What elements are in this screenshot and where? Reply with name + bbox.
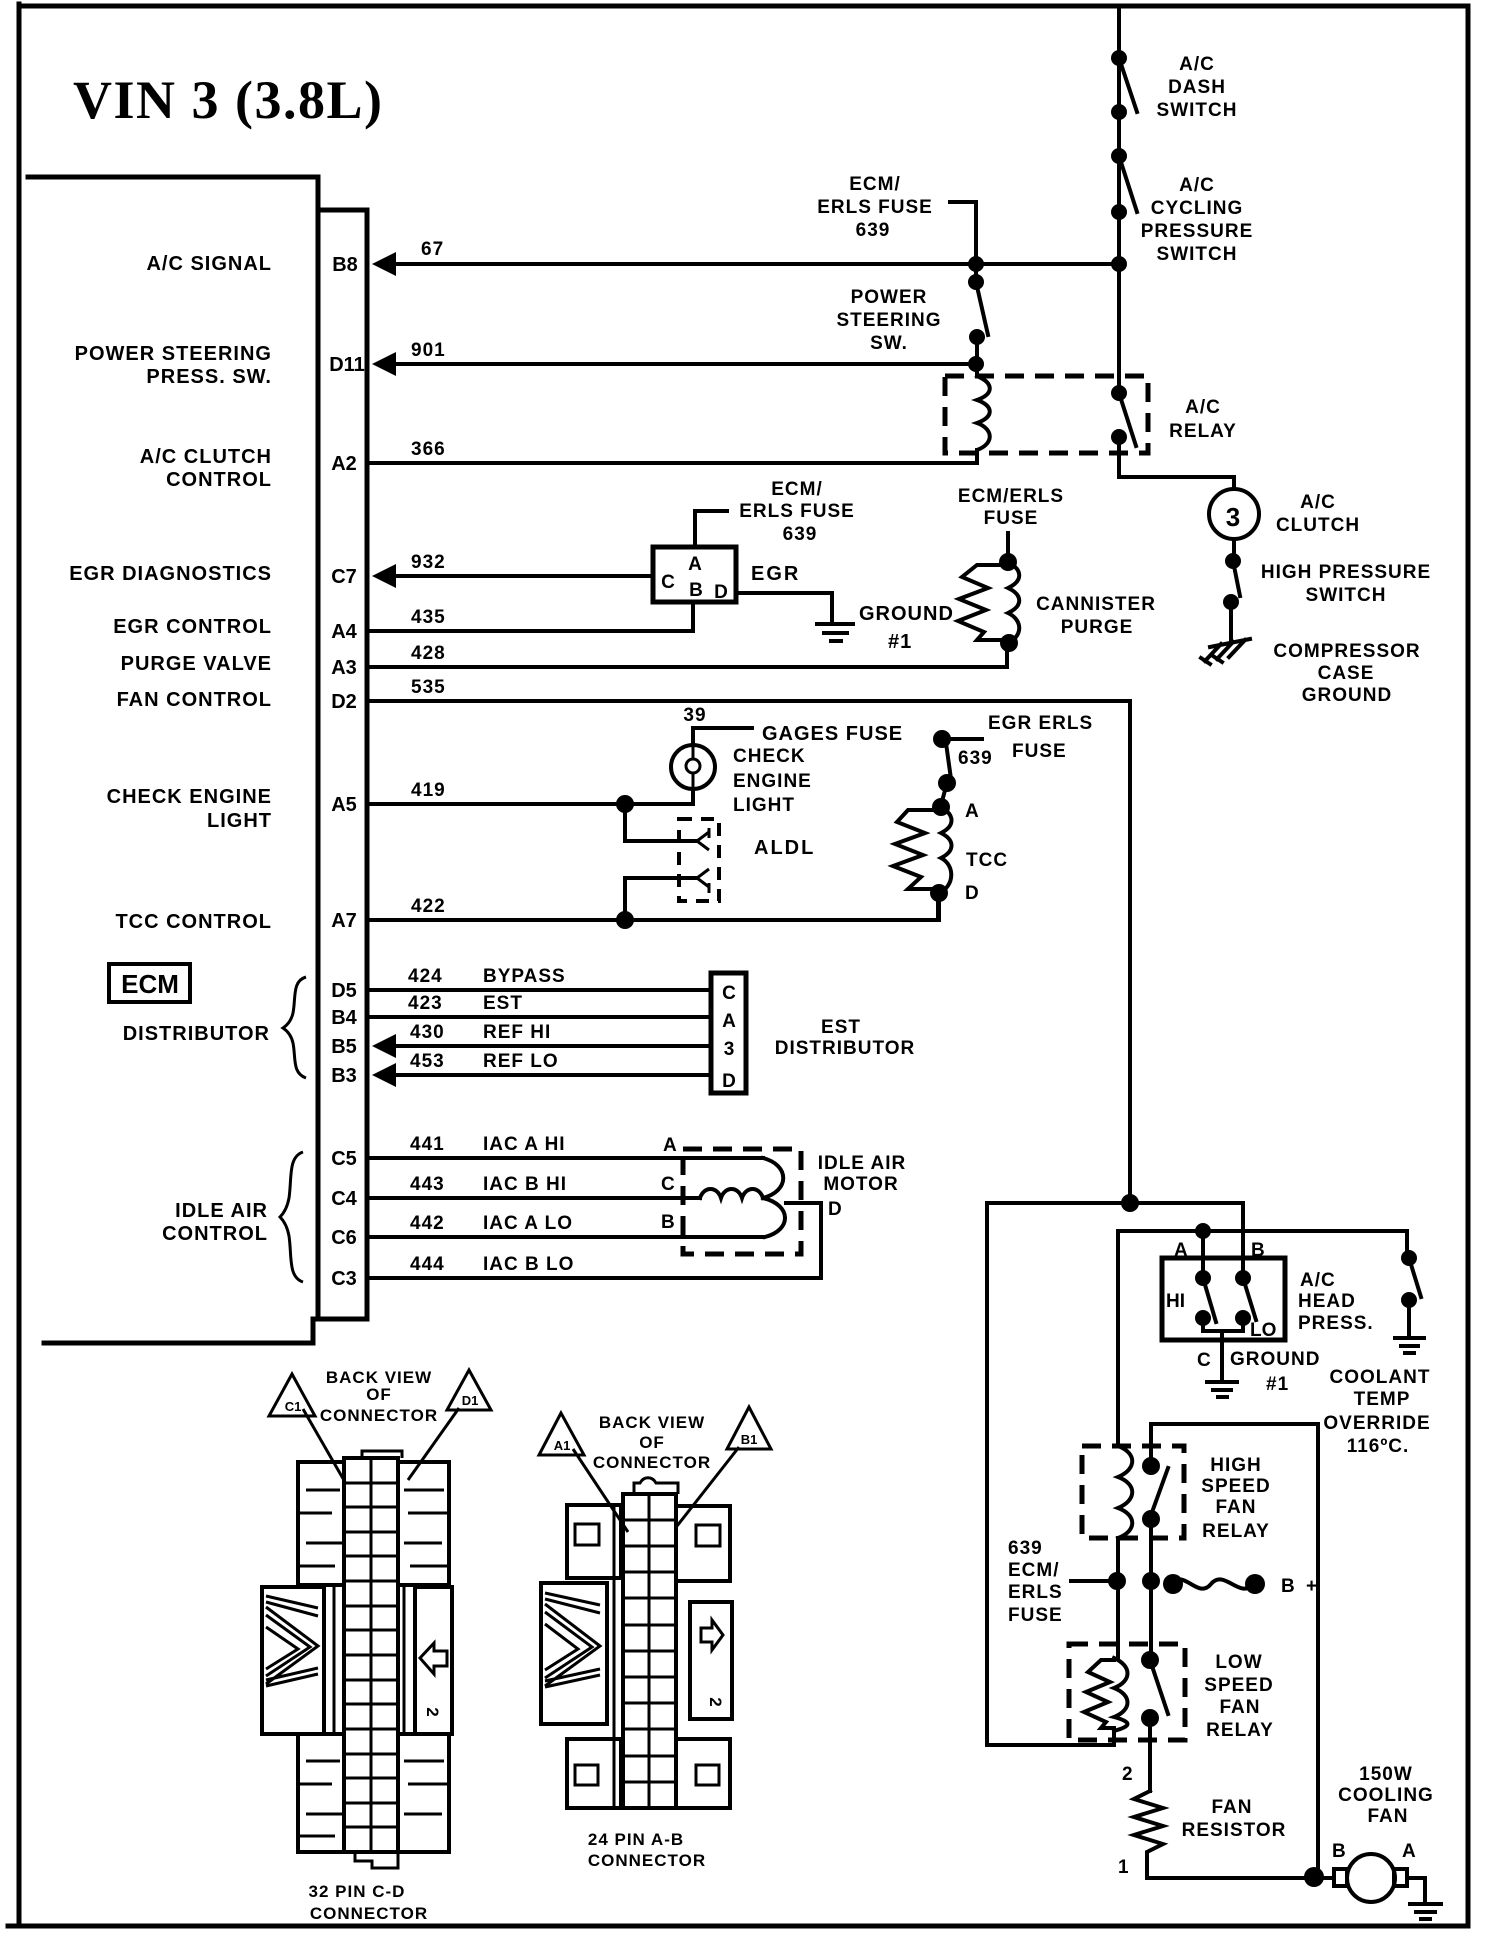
labels B A (fan) [1332,1841,1416,1862]
svg-text:CYCLING: CYCLING [1151,198,1244,219]
svg-text:IAC A HI: IAC A HI [483,1134,566,1155]
wire 423 EST [369,1015,711,1019]
idle air motor windings [700,1158,785,1237]
node: wire 901 junction [968,356,984,372]
EST distributor connector box [711,973,746,1093]
svg-text:A/C: A/C [1179,175,1215,196]
svg-text:CHECK ENGINE: CHECK ENGINE [107,786,272,808]
svg-text:LOW: LOW [1215,1652,1262,1673]
head press LO switch [1235,1270,1256,1326]
label EGR ERLS FUSE 639 [958,713,1093,769]
svg-text:GAGES FUSE: GAGES FUSE [762,723,903,745]
svg-text:2: 2 [423,1707,442,1716]
svg-text:32 PIN C-D: 32 PIN C-D [309,1882,406,1901]
label BACK VIEW OF CONNECTOR (A-B) [593,1413,711,1472]
wire 441 IAC A HI [369,1156,763,1160]
wire 424 bypass [369,988,711,992]
power steering switch [968,274,988,345]
svg-text:TCC CONTROL: TCC CONTROL [115,911,272,933]
svg-text:CONTROL: CONTROL [162,1223,268,1245]
svg-text:EST: EST [821,1017,861,1038]
svg-text:A/C SIGNAL: A/C SIGNAL [146,253,272,275]
wire EGR pin D to ground [738,593,832,622]
svg-text:FUSE: FUSE [1012,741,1067,762]
svg-text:D: D [722,1071,736,1092]
EGR ERLS fuse element [933,730,982,805]
svg-text:EGR: EGR [751,563,800,585]
svg-text:DISTRIBUTOR: DISTRIBUTOR [123,1023,270,1045]
svg-text:C6: C6 [331,1227,357,1249]
high speed fan relay switch [1142,1457,1168,1528]
label COMPRESSOR CASE GROUND [1273,641,1420,706]
label 639 ECM/ERLS FUSE [1008,1538,1063,1626]
svg-text:A/C: A/C [1185,397,1221,418]
svg-text:RELAY: RELAY [1169,421,1237,442]
ALDL connector (dashed) [679,819,719,901]
wire: relay switch top feed [1151,1424,1318,1877]
idle air motor dashed box [683,1149,801,1254]
high speed fan relay box (dashed) [1082,1446,1184,1538]
wire 67 A/C signal [394,262,1119,266]
svg-text:D: D [714,582,728,603]
svg-text:A4: A4 [331,621,357,643]
wire: junction to ALDL pin A [625,804,697,841]
svg-text:FUSE: FUSE [1008,1605,1063,1626]
svg-text:IDLE AIR: IDLE AIR [175,1200,268,1222]
node: fan control junction [1121,1194,1139,1212]
svg-text:A7: A7 [331,910,357,932]
svg-text:POWER STEERING: POWER STEERING [75,343,272,365]
A/C dash switch [1111,50,1137,120]
svg-text:RELAY: RELAY [1206,1720,1274,1741]
svg-text:A/C CLUTCH: A/C CLUTCH [140,446,272,468]
wire 422 TCC control [369,894,938,920]
low speed fan relay box (dashed) [1069,1644,1185,1740]
wire 39 gages fuse stub [693,728,752,745]
svg-text:FAN: FAN [1216,1497,1257,1518]
svg-text:A1: A1 [554,1438,571,1453]
svg-text:B3: B3 [331,1065,357,1087]
svg-text:OF: OF [366,1385,392,1404]
svg-text:A: A [1402,1841,1416,1862]
node: head press A tap [1195,1223,1211,1239]
wire: tap to head press A [1201,1231,1205,1278]
wire 901 power steering [394,362,976,366]
node: A5 wire junction [616,795,634,813]
label A/C DASH SWITCH [1157,54,1238,121]
A/C head press switch box [1162,1258,1285,1340]
ground #1 symbol (head press) [1207,1382,1237,1397]
brace distributor [283,977,306,1078]
low speed fan relay switch [1141,1651,1168,1727]
svg-text:2: 2 [1122,1764,1133,1785]
svg-text:SWITCH: SWITCH [1306,585,1387,606]
svg-text:C5: C5 [331,1148,357,1170]
wire 430 REF HI [394,1044,711,1048]
svg-text:PRESS.: PRESS. [1298,1313,1374,1334]
svg-text:IAC A LO: IAC A LO [483,1213,573,1234]
svg-text:67: 67 [421,239,444,260]
label POWER STEERING PRESS. SW. [75,343,272,388]
svg-text:B +: B + [1281,1576,1320,1597]
svg-text:COOLING: COOLING [1338,1785,1434,1806]
svg-text:B1: B1 [741,1432,758,1447]
callout triangle B1 [677,1407,771,1526]
svg-text:422: 422 [411,896,446,917]
svg-text:IAC B HI: IAC B HI [483,1174,567,1195]
svg-text:CONNECTOR: CONNECTOR [320,1406,438,1425]
label IAC pins A C B [661,1135,677,1233]
svg-text:ERLS FUSE: ERLS FUSE [739,501,855,522]
svg-text:C: C [661,572,675,593]
label GROUND #1 (EGR) [859,603,954,653]
svg-text:#1: #1 [888,631,912,653]
wire TCC D to 422 [937,893,941,920]
svg-text:FAN: FAN [1212,1797,1253,1818]
wire label 442 IAC A LO [410,1213,573,1234]
svg-text:2: 2 [706,1697,725,1706]
ECM label box [109,964,190,1002]
svg-text:CONTROL: CONTROL [166,469,272,491]
compressor case ground symbol [1201,602,1250,664]
label HIGH PRESSURE SWITCH [1261,562,1431,606]
svg-text:FAN: FAN [1220,1697,1261,1718]
svg-text:639: 639 [783,524,818,545]
svg-text:#1: #1 [1266,1374,1289,1395]
arrow into pin D11 [372,352,396,376]
svg-text:424: 424 [408,966,443,987]
wire label 453 REF LO [410,1051,559,1072]
label COOLANT TEMP OVERRIDE 116C [1323,1367,1430,1457]
svg-text:SWITCH: SWITCH [1157,244,1238,265]
svg-text:SPEED: SPEED [1204,1675,1273,1696]
svg-text:ECM: ECM [121,969,179,999]
svg-text:GROUND: GROUND [859,603,954,625]
svg-text:GROUND: GROUND [1302,685,1392,706]
svg-text:453: 453 [410,1051,445,1072]
svg-text:D: D [965,883,979,904]
EGR valve connector box [653,547,736,603]
label 150W COOLING FAN [1338,1764,1434,1827]
svg-text:901: 901 [411,340,446,361]
label ECM/ERLS FUSE 639 (top) [817,174,933,241]
svg-text:B8: B8 [332,254,358,276]
A/C relay coil [977,376,990,463]
node: fan feed junction [1304,1867,1324,1887]
svg-text:ERLS FUSE: ERLS FUSE [817,197,933,218]
svg-text:PRESS. SW.: PRESS. SW. [146,366,272,388]
svg-text:24 PIN A-B: 24 PIN A-B [588,1830,684,1849]
label A/C CLUTCH [1276,492,1360,536]
svg-text:435: 435 [411,607,446,628]
svg-text:A/C: A/C [1179,54,1215,75]
label TCC pins A D [965,801,1008,904]
svg-text:LIGHT: LIGHT [733,795,795,816]
svg-text:444: 444 [410,1254,445,1275]
svg-text:SWITCH: SWITCH [1157,100,1238,121]
svg-text:442: 442 [410,1213,445,1234]
ALDL pin contacts [697,828,709,893]
svg-text:A: A [965,801,979,822]
arrow into pin B8 [372,252,396,276]
wire 366 A/C clutch control [369,450,977,463]
svg-text:CASE: CASE [1318,663,1375,684]
PIN-LABELS [329,254,365,1290]
svg-text:A: A [722,1011,736,1032]
svg-text:ECM/: ECM/ [771,479,823,500]
label 24 PIN A-B CONNECTOR [588,1830,706,1870]
high speed fan relay coil [1118,1446,1132,1538]
svg-text:C7: C7 [331,566,357,588]
svg-text:428: 428 [411,643,446,664]
svg-text:B: B [1332,1841,1346,1862]
label FAN RESISTOR [1182,1797,1287,1841]
svg-text:CHECK: CHECK [733,746,806,767]
svg-text:A: A [688,554,702,575]
svg-text:IAC B LO: IAC B LO [483,1254,574,1275]
svg-text:430: 430 [410,1022,445,1043]
svg-text:ECM/: ECM/ [849,174,901,195]
label A/C RELAY [1169,397,1237,442]
wire 535 fan control [369,701,1130,1203]
svg-text:C4: C4 [331,1188,357,1210]
svg-text:150W: 150W [1359,1764,1413,1785]
wire label 423 EST [408,993,523,1014]
svg-text:ECM/ERLS: ECM/ERLS [958,486,1064,507]
svg-text:OF: OF [639,1433,665,1452]
cooling fan motor [1334,1854,1407,1902]
svg-text:B5: B5 [331,1036,357,1058]
32 pin C-D connector body [262,1451,452,1868]
callout triangle C1 [269,1374,345,1482]
head press HI switch [1195,1270,1216,1326]
high pressure switch [1223,539,1241,610]
svg-text:D1: D1 [462,1393,479,1408]
svg-text:A5: A5 [331,794,357,816]
arrow into pin C7 [372,564,396,588]
wire: main feed vertical [1117,6,1121,393]
callout triangle A1 [539,1413,628,1532]
svg-text:932: 932 [411,552,446,573]
svg-text:D5: D5 [331,980,357,1002]
svg-text:COMPRESSOR: COMPRESSOR [1273,641,1420,662]
wire: junction to head press B [1130,1203,1243,1278]
check engine light bulb [671,745,715,789]
wire: switch to relay coil [975,337,979,376]
wire label 441 IAC A HI [410,1134,566,1155]
svg-text:C: C [1197,1350,1211,1371]
svg-text:A: A [663,1135,677,1156]
svg-text:TCC: TCC [966,850,1008,871]
svg-text:SPEED: SPEED [1201,1476,1270,1497]
label ECM/ERLS FUSE 639 (EGR) [739,479,855,545]
svg-text:MOTOR: MOTOR [823,1174,898,1195]
svg-text:POWER: POWER [851,287,928,308]
svg-text:RESISTOR: RESISTOR [1182,1820,1287,1841]
low speed fan relay coil [1084,1658,1128,1731]
TCC solenoid [893,798,952,902]
coolant temp override switch [1401,1250,1421,1336]
cannister purge solenoid [958,533,1019,652]
wire label 430 REF HI [410,1022,551,1043]
wire 419 check engine light [369,790,693,804]
node: 639 fuse junction [1108,1572,1126,1590]
arrow into pin B5 [372,1034,396,1058]
wire: head press common to ground [1203,1318,1243,1380]
svg-text:COOLANT: COOLANT [1330,1367,1431,1388]
svg-text:C1: C1 [285,1399,302,1414]
A/C cycling pressure switch [1111,148,1137,220]
svg-text:HIGH: HIGH [1210,1455,1262,1476]
wire: ALDL pin D to A7 wire [625,878,697,920]
svg-text:ENGINE: ENGINE [733,771,812,792]
wire: switch to fan resistor [1148,1718,1152,1791]
labels A B HI LO [1166,1240,1276,1341]
wire: fan motor to ground [1407,1878,1425,1902]
svg-text:423: 423 [408,993,443,1014]
node: B+ junction [1142,1572,1160,1590]
label 32 PIN C-D CONNECTOR [309,1882,429,1923]
wire: junction to low speed relay coil [987,1203,1130,1745]
svg-text:CLUTCH: CLUTCH [1276,515,1360,536]
svg-text:FAN CONTROL: FAN CONTROL [117,689,272,711]
svg-text:B: B [661,1212,675,1233]
svg-text:639: 639 [958,748,993,769]
label IDLE AIR MOTOR D [818,1153,907,1220]
ECM pin connector column [318,210,367,1319]
wire: head press A row [1118,1231,1407,1446]
wire 442 IAC A LO [369,1235,763,1239]
ground #1 symbol (EGR) [817,624,853,641]
wire: 639 fuse stub [1071,1579,1117,1583]
svg-text:C: C [722,983,736,1004]
wire 932 EGR diagnostics [394,574,653,578]
node: fuse tap on wire 67 [968,256,984,272]
wire 428 purge valve [369,643,1007,667]
svg-text:419: 419 [411,780,446,801]
svg-text:3: 3 [724,1039,735,1060]
svg-text:D2: D2 [331,691,357,713]
wire: relay output to clutch [1119,437,1234,489]
svg-text:EGR ERLS: EGR ERLS [988,713,1093,734]
svg-text:CONNECTOR: CONNECTOR [310,1904,428,1923]
svg-text:PURGE: PURGE [1061,617,1134,638]
label A/C CYCLING PRESSURE SWITCH [1141,175,1254,265]
wire 453 REF LO [394,1073,711,1077]
svg-text:639: 639 [856,220,891,241]
svg-text:443: 443 [410,1174,445,1195]
svg-text:RELAY: RELAY [1202,1521,1270,1542]
node: A7 wire junction [616,911,634,929]
svg-text:3: 3 [1226,502,1240,532]
svg-text:441: 441 [410,1134,445,1155]
label CHECK ENGINE LIGHT [733,746,812,816]
ground symbol (fan) [1410,1904,1441,1919]
wire 444 IAC B LO [369,1203,821,1278]
svg-text:A/C: A/C [1300,492,1336,513]
svg-text:CONNECTOR: CONNECTOR [593,1453,711,1472]
label HIGH SPEED FAN RELAY [1201,1455,1270,1542]
svg-text:639: 639 [1008,1538,1043,1559]
B+ fusible link [1163,1574,1265,1594]
svg-text:ALDL: ALDL [754,837,815,859]
wire EGR to ECM/ERLS fuse 639 [695,511,727,545]
svg-text:IDLE AIR: IDLE AIR [818,1153,907,1174]
label A/C CLUTCH CONTROL [140,446,272,491]
ground symbol (override) [1395,1338,1424,1353]
svg-text:A3: A3 [331,657,357,679]
svg-text:EGR DIAGNOSTICS: EGR DIAGNOSTICS [69,563,272,585]
svg-text:D11: D11 [329,354,365,376]
svg-text:FAN: FAN [1368,1806,1409,1827]
svg-text:A: A [1174,1240,1188,1261]
svg-text:BACK VIEW: BACK VIEW [599,1413,705,1432]
brace idle air [280,1152,303,1282]
svg-text:REF HI: REF HI [483,1022,551,1043]
svg-text:535: 535 [411,677,446,698]
svg-text:C3: C3 [331,1268,357,1290]
svg-text:C: C [661,1174,675,1195]
ECM outline box [28,177,367,1343]
svg-text:B: B [689,580,703,601]
fan resistor [1134,1791,1163,1878]
label BACK VIEW OF CONNECTOR (C-D) [320,1368,438,1425]
wire label 424 BYPASS [408,966,566,987]
wire label 444 IAC B LO [410,1254,574,1275]
wire from ECM/ERLS fuse 639 to power steering sw [950,202,976,282]
svg-text:DISTRIBUTOR: DISTRIBUTOR [775,1038,915,1059]
svg-text:B4: B4 [331,1007,357,1029]
label LOW SPEED FAN RELAY [1204,1652,1274,1741]
svg-text:TEMP: TEMP [1354,1389,1411,1410]
svg-text:CANNISTER: CANNISTER [1036,594,1156,615]
svg-text:DASH: DASH [1168,77,1226,98]
svg-text:FUSE: FUSE [984,508,1039,529]
svg-text:OVERRIDE: OVERRIDE [1323,1413,1430,1434]
svg-text:B: B [1251,1240,1265,1261]
arrow into pin B3 [372,1063,396,1087]
svg-text:ECM/: ECM/ [1008,1560,1060,1581]
wire 443 IAC B HI [369,1196,700,1200]
label CHECK ENGINE LIGHT [107,786,272,832]
svg-text:39: 39 [683,705,706,726]
svg-text:VIN 3 (3.8L): VIN 3 (3.8L) [73,70,384,130]
A/C relay switch [1111,385,1136,446]
svg-text:STEERING: STEERING [836,310,941,331]
svg-text:A/C: A/C [1300,1270,1336,1291]
svg-text:EST: EST [483,993,523,1014]
svg-text:BYPASS: BYPASS [483,966,566,987]
label CANNISTER PURGE [1036,594,1156,638]
wire: switch bottom to B+ [1149,1519,1153,1660]
node: wire67 junction on main vertical [1111,256,1127,272]
wire: coil bottom to junction [1116,1538,1120,1658]
svg-text:HI: HI [1166,1291,1185,1312]
A/C relay box (dashed) [945,376,1148,453]
24 pin A-B connector body [541,1478,732,1808]
wire label 443 IAC B HI [410,1174,567,1195]
svg-text:ERLS: ERLS [1008,1582,1063,1603]
callout triangle D1 [408,1370,491,1480]
svg-text:366: 366 [411,439,446,460]
wire: resistor to fan motor [1147,1876,1334,1880]
svg-text:HEAD: HEAD [1298,1291,1356,1312]
label A/C HEAD PRESS. [1298,1270,1374,1334]
svg-text:PRESSURE: PRESSURE [1141,221,1254,242]
label C GROUND #1 [1197,1349,1320,1395]
svg-text:LIGHT: LIGHT [207,810,272,832]
svg-text:REF LO: REF LO [483,1051,559,1072]
